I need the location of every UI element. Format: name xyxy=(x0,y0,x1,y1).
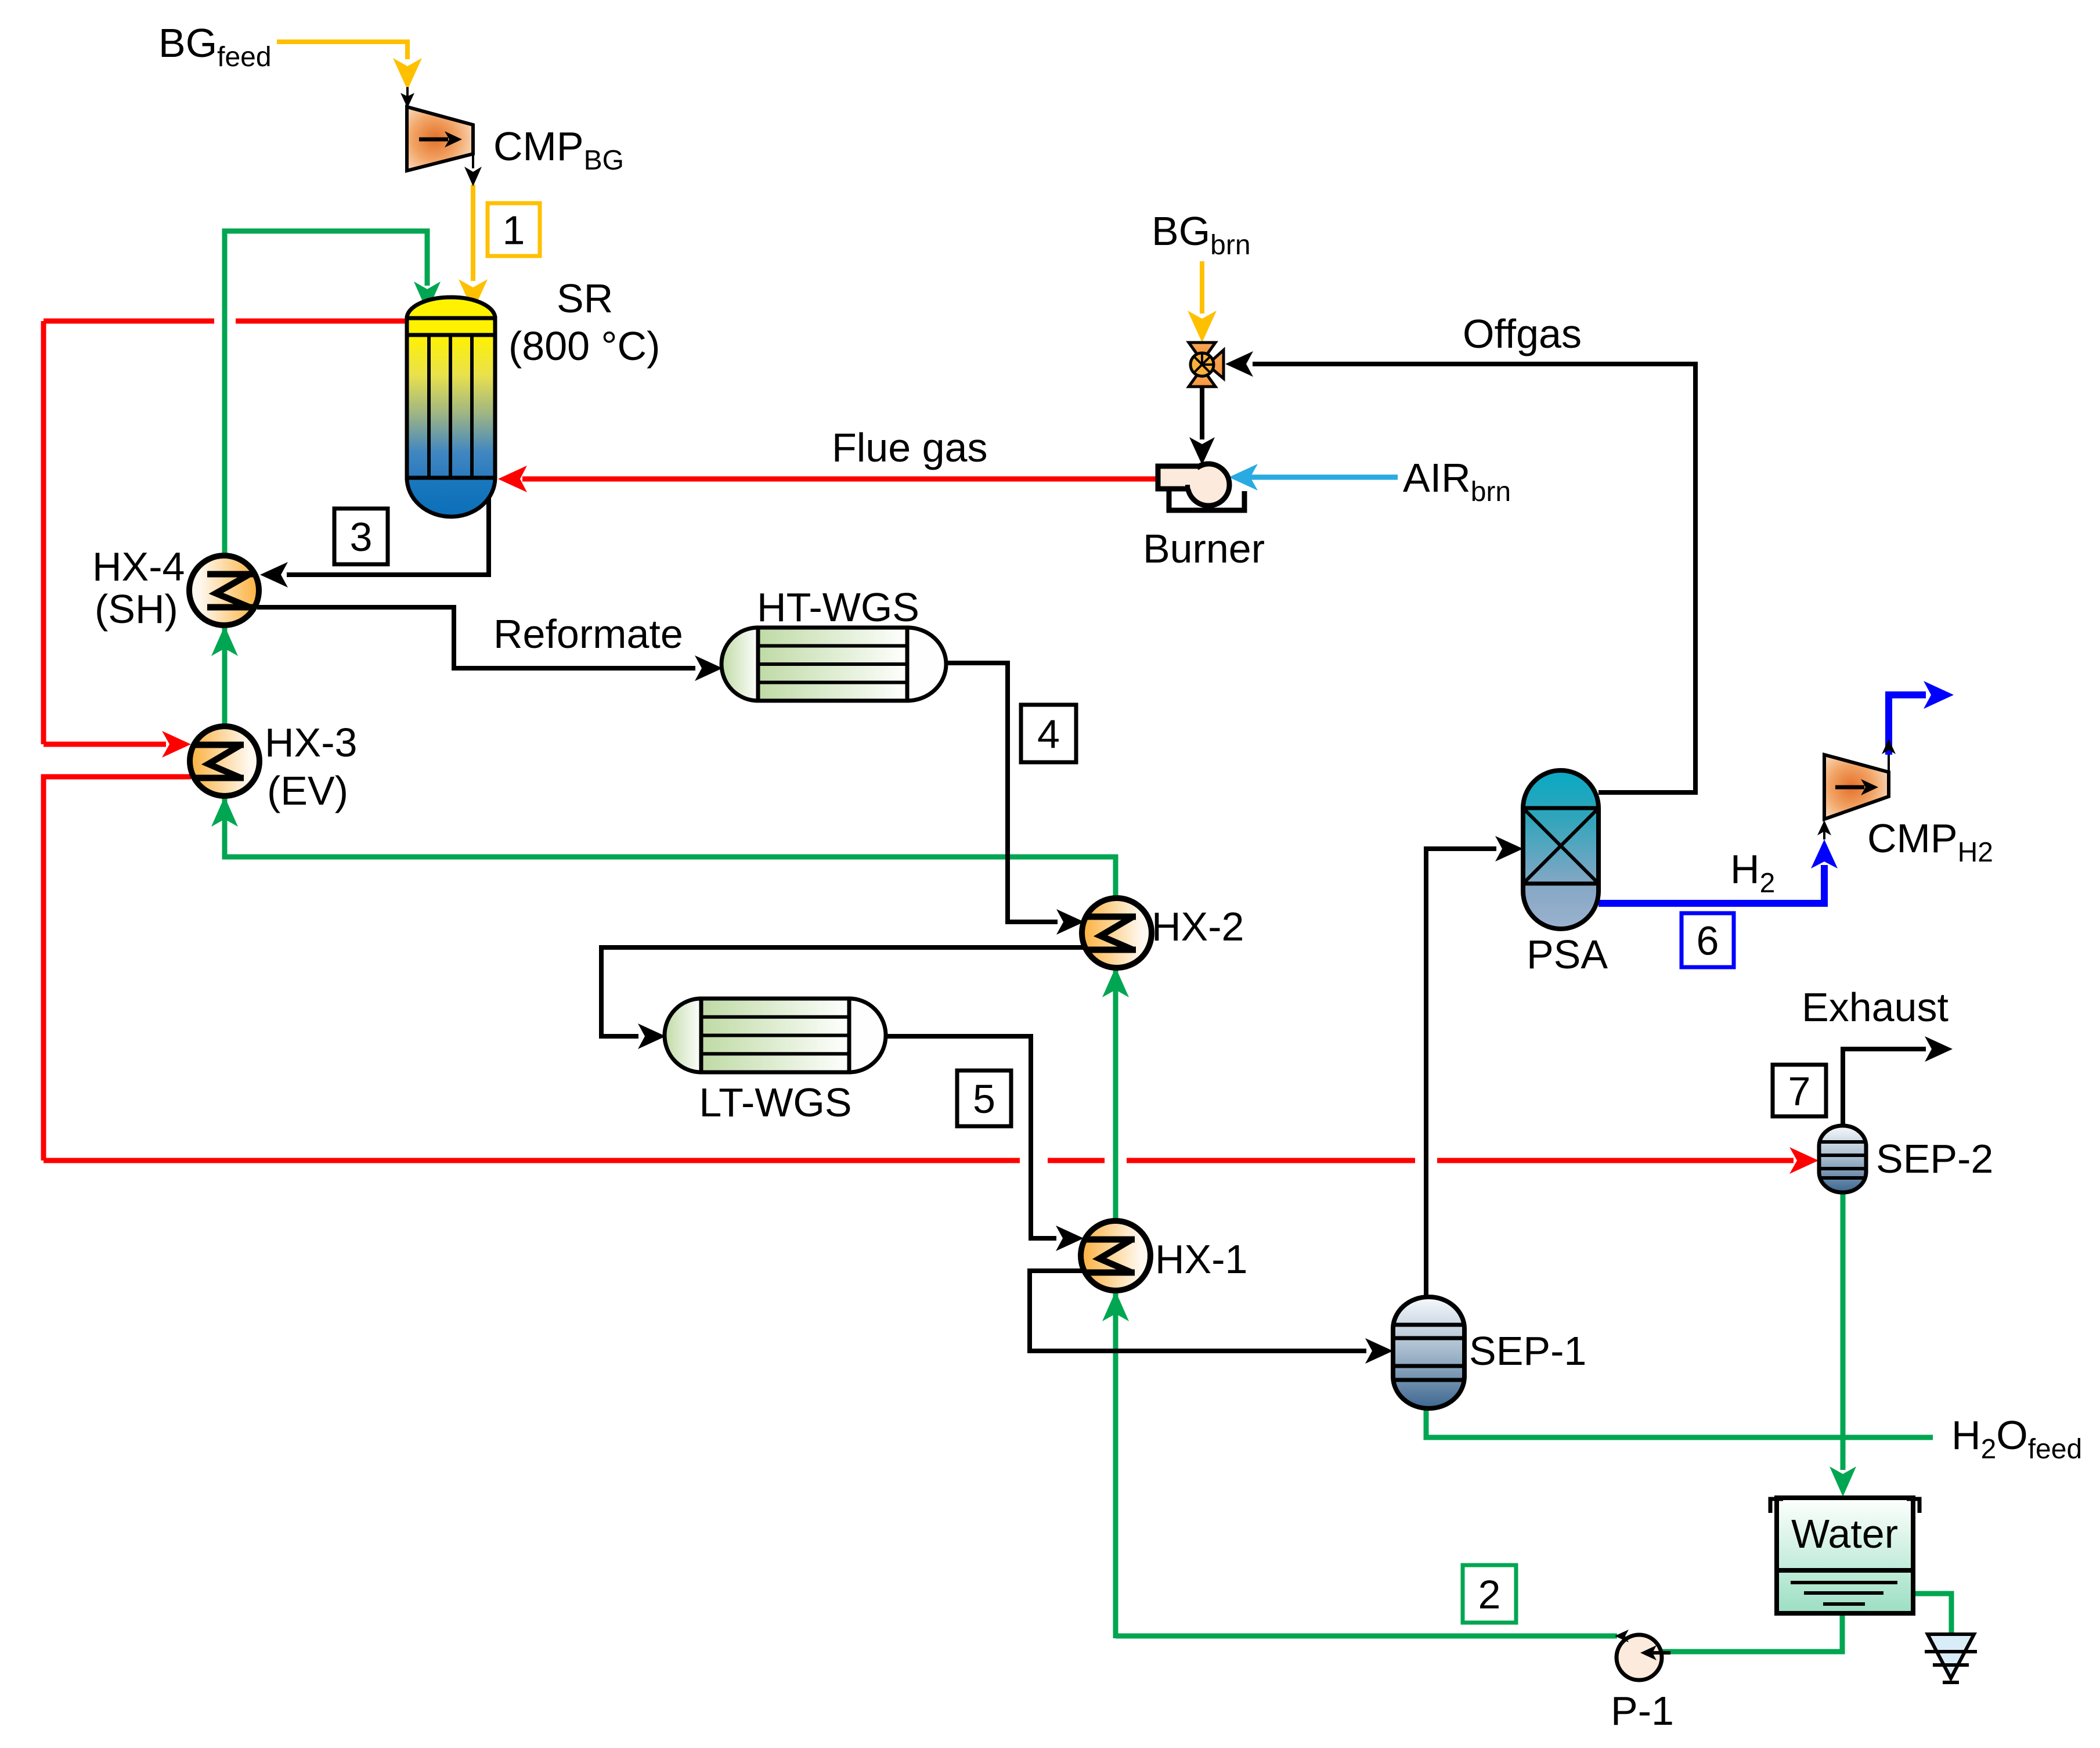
wire: blue H2 line from PSA to CMP_H2 xyxy=(1599,820,1838,903)
label SR xyxy=(557,276,613,321)
valve 3-way (offgas/biogas to burner) xyxy=(1189,343,1224,387)
reactor SR xyxy=(407,297,495,517)
svg-text:Offgas: Offgas xyxy=(1463,311,1582,356)
wire: red flue gas line burner to SR xyxy=(498,466,1158,492)
wire: green condensate from SEP-2 to water tank xyxy=(1830,1192,1856,1497)
wire: black exhaust line from SEP-2 xyxy=(1843,1036,1953,1148)
svg-text:HX-4: HX-4 xyxy=(92,544,185,589)
svg-text:AIRbrn: AIRbrn xyxy=(1403,455,1511,507)
heat exchanger HX-2 xyxy=(1082,898,1152,968)
label Flue gas xyxy=(832,425,987,470)
label Exhaust xyxy=(1802,985,1949,1030)
node stream 6 label box xyxy=(1682,913,1734,967)
water tank xyxy=(1770,1498,1919,1613)
label BG_brn xyxy=(1152,208,1251,261)
svg-text:Exhaust: Exhaust xyxy=(1802,985,1949,1030)
svg-text:Burner: Burner xyxy=(1143,526,1265,571)
wire: black line SEP-1 to PSA xyxy=(1426,836,1523,1298)
label Offgas xyxy=(1463,311,1582,356)
separator SEP-1 xyxy=(1393,1297,1464,1408)
label Reformate xyxy=(493,611,683,657)
reactor LT-WGS xyxy=(665,999,886,1072)
reactor HT-WGS xyxy=(721,628,946,701)
burner xyxy=(1158,464,1244,510)
compressor CMP_BG xyxy=(400,87,482,186)
label HX-2 xyxy=(1152,904,1244,949)
label SEP-1 xyxy=(1469,1328,1586,1374)
svg-text:CMPBG: CMPBG xyxy=(493,124,624,176)
drain symbol xyxy=(1925,1634,1977,1682)
wire: black line HX-1 to SEP-1 xyxy=(1030,1271,1393,1364)
label EV xyxy=(267,768,348,813)
svg-text:H2: H2 xyxy=(1730,846,1775,899)
wire: red flue gas from HX-3 to SEP-2 xyxy=(44,777,1818,1174)
node stream 1 label box xyxy=(488,203,540,256)
svg-text:6: 6 xyxy=(1697,918,1719,964)
svg-text:SEP-1: SEP-1 xyxy=(1469,1328,1586,1374)
label Water xyxy=(1791,1511,1898,1556)
svg-text:P-1: P-1 xyxy=(1611,1688,1674,1733)
label HX-3 xyxy=(265,720,357,765)
svg-text:Reformate: Reformate xyxy=(493,611,683,657)
heat exchanger HX-4 xyxy=(189,556,259,625)
svg-text:CMPH2: CMPH2 xyxy=(1867,816,1993,868)
label SH xyxy=(95,586,178,632)
label CMP_BG xyxy=(493,124,624,176)
wire: red flue gas SR to HX-4 side (down left column) xyxy=(44,321,407,758)
compressor CMP_H2 xyxy=(1824,755,1889,819)
wire: black line HX-2 to LT-WGS xyxy=(601,947,1084,1049)
svg-text:BGfeed: BGfeed xyxy=(158,20,272,73)
heat exchanger HX-1 xyxy=(1081,1221,1150,1291)
label LT-WGS xyxy=(699,1080,851,1125)
wire: black line valve to burner xyxy=(1189,386,1215,465)
svg-text:SR: SR xyxy=(557,276,613,321)
svg-text:HX-1: HX-1 xyxy=(1155,1237,1247,1282)
svg-text:(SH): (SH) xyxy=(95,586,178,632)
svg-text:(EV): (EV) xyxy=(267,768,348,813)
wire: black stream 3 SR to HX-4 xyxy=(260,495,489,588)
svg-text:4: 4 xyxy=(1037,712,1060,757)
svg-text:2: 2 xyxy=(1478,1572,1501,1617)
wire: black reformate line HX-4 to HT-WGS xyxy=(257,607,723,681)
svg-text:Water: Water xyxy=(1791,1511,1898,1556)
label HX-1 xyxy=(1155,1237,1247,1282)
wire: yellow BG burner feed into valve xyxy=(1188,261,1217,343)
svg-text:HX-3: HX-3 xyxy=(265,720,357,765)
svg-text:HT-WGS: HT-WGS xyxy=(757,585,919,630)
wire: black offgas line PSA to valve xyxy=(1225,351,1695,792)
node stream 5 label box xyxy=(957,1071,1011,1126)
node stream 2 label box xyxy=(1463,1565,1516,1623)
svg-text:PSA: PSA xyxy=(1527,932,1608,977)
heat exchanger HX-3 xyxy=(190,726,259,796)
svg-text:SEP-2: SEP-2 xyxy=(1876,1136,1993,1181)
wire: green H2O feed line from SEP-1 bottom xyxy=(1426,1408,1933,1437)
label SEP-2 xyxy=(1876,1136,1993,1181)
adsorber PSA xyxy=(1523,770,1599,929)
svg-text:HX-2: HX-2 xyxy=(1152,904,1244,949)
label HT-WGS xyxy=(757,585,919,630)
wire: green water tank overflow to drain xyxy=(1912,1594,1951,1635)
pump P-1 xyxy=(1615,1630,1670,1680)
svg-text:5: 5 xyxy=(973,1076,995,1122)
svg-text:1: 1 xyxy=(503,208,525,253)
node stream 3 label box xyxy=(334,509,388,564)
wire: yellow stream 1 from CMP_BG to SR xyxy=(459,185,488,311)
wire: yellow BG feed line into CMP_BG xyxy=(277,42,422,90)
svg-text:LT-WGS: LT-WGS xyxy=(699,1080,851,1125)
wire: green condensate/steam main (stream 2) from P-1 to SR xyxy=(211,231,1617,1638)
label AIR_brn xyxy=(1403,455,1511,507)
label PSA xyxy=(1527,932,1608,977)
label SR temperature 800C xyxy=(508,323,660,369)
label H2O_feed xyxy=(1951,1412,2082,1465)
label P-1 xyxy=(1611,1688,1674,1733)
svg-text:H2Ofeed: H2Ofeed xyxy=(1951,1412,2082,1465)
svg-text:BGbrn: BGbrn xyxy=(1152,208,1251,261)
wire: blue H2 product line out of CMP_H2 xyxy=(1882,681,1954,772)
label CMP_H2 xyxy=(1867,816,1993,868)
label BG_feed xyxy=(158,20,272,73)
svg-text:Flue gas: Flue gas xyxy=(832,425,987,470)
wire: black stream 4 HT-WGS to HX-2 xyxy=(945,663,1084,935)
separator SEP-2 xyxy=(1819,1126,1866,1192)
node stream 4 label box xyxy=(1021,705,1076,762)
wire: black stream 5 LT-WGS to HX-1 xyxy=(885,1036,1084,1251)
label HX-4 xyxy=(92,544,185,589)
wire: green water tank outlet to pump P-1 xyxy=(1660,1613,1842,1652)
node stream 7 label box xyxy=(1773,1065,1826,1116)
label Burner xyxy=(1143,526,1265,571)
svg-text:7: 7 xyxy=(1788,1069,1811,1114)
wire: light blue AIR line into burner xyxy=(1229,464,1398,491)
svg-text:3: 3 xyxy=(350,514,373,560)
label H2 xyxy=(1730,846,1775,899)
svg-text:(800 °C): (800 °C) xyxy=(508,323,660,369)
